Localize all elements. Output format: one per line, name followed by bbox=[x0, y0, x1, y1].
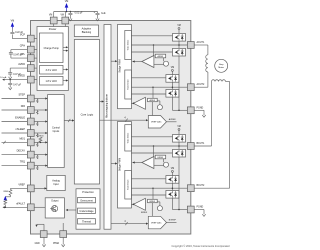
bulk capacitor at VM rail bbox=[97, 12, 99, 14]
wire winding B to BOUT2 bbox=[226, 81, 230, 83]
svg-text:Step: Step bbox=[219, 63, 224, 66]
capacitor 0.22uF on VCP bbox=[10, 32, 14, 33]
svg-text:DECAY: DECAY bbox=[17, 150, 26, 153]
wire DVDD into Power bbox=[34, 79, 37, 81]
wire 3.3-V LDO output bbox=[63, 69, 67, 71]
svg-text:AIREF: AIREF bbox=[149, 99, 156, 102]
svg-text:Bridge PWM: Bridge PWM bbox=[119, 158, 122, 171]
wire half-bridge mid node B1 bbox=[178, 142, 180, 149]
svg-text:Undervoltage: Undervoltage bbox=[79, 210, 94, 213]
wire ENABLE to Control Inputs bbox=[34, 121, 46, 123]
svg-text:PGND: PGND bbox=[197, 107, 204, 109]
comparator A1 input wires bbox=[154, 63, 164, 65]
pin M0/1 bbox=[27, 139, 34, 146]
low-side FET A1 bbox=[173, 48, 186, 56]
wire half-bridge mid node A1 bbox=[178, 41, 180, 48]
Control Inputs block bbox=[48, 95, 65, 168]
wire AIREF A2 to TRQ DAC A bbox=[151, 102, 153, 116]
current DAC BIREF B2 bbox=[148, 199, 158, 202]
wire PPAD to ground bbox=[62, 238, 64, 243]
pin DVDD bbox=[27, 76, 34, 83]
Gate Drive B2 block bbox=[125, 171, 132, 200]
pin PPAD bottom bbox=[60, 231, 67, 238]
wire AVDD to bypass cap bbox=[10, 67, 27, 69]
svg-text:BIREF: BIREF bbox=[141, 212, 148, 214]
wire STEP to Control Inputs bbox=[34, 98, 46, 100]
sense tap B2 bbox=[152, 188, 154, 199]
ground for DVDD cap bbox=[9, 84, 11, 87]
ground for 0.01uF cap bbox=[69, 16, 72, 20]
svg-text:0.47 µF: 0.47 µF bbox=[13, 85, 21, 87]
pin DIR bbox=[27, 107, 34, 114]
TRQ DAC A hexagon bbox=[148, 116, 166, 129]
wire mid node B2 to BOUT2 bbox=[131, 187, 187, 189]
wire VM pins to Power block bbox=[53, 24, 55, 27]
Adaptive Blanking block bbox=[74, 25, 98, 37]
svg-text:AIREF: AIREF bbox=[158, 55, 165, 58]
ground for bulk cap bbox=[96, 16, 99, 20]
pin DECAY bbox=[27, 151, 34, 158]
input pulldown ENABLE bbox=[37, 122, 39, 126]
Gate Drive A2 block bbox=[125, 70, 132, 99]
pin PGND B bbox=[187, 206, 194, 213]
low-side FET A2 bbox=[166, 90, 179, 98]
svg-text:Core Logic: Core Logic bbox=[81, 113, 94, 117]
svg-text:VREF DAC: VREF DAC bbox=[151, 121, 162, 124]
wire LS gate B1 bbox=[131, 152, 172, 154]
input pulldown TRQ bbox=[37, 166, 39, 170]
svg-text:Bridge PWM: Bridge PWM bbox=[119, 59, 122, 72]
svg-text:CPH: CPH bbox=[20, 45, 25, 48]
wire Protection to Output block bbox=[67, 209, 76, 211]
svg-text:RREF: RREF bbox=[3, 191, 9, 193]
svg-text:VM: VM bbox=[177, 126, 181, 128]
svg-text:0.22 µF: 0.22 µF bbox=[15, 32, 23, 34]
wire indexer to bridge A PWM bbox=[111, 60, 116, 62]
Undervoltage block bbox=[78, 208, 96, 213]
pin GND bottom bbox=[40, 231, 47, 238]
pin BOUT1 bbox=[187, 143, 194, 150]
flying capacitor 0.047uF between CPH and CPL bbox=[11, 49, 28, 51]
motor winding B inductor bbox=[212, 80, 226, 82]
IC body outline bbox=[31, 21, 191, 235]
wire Core Logic to indexer bbox=[100, 101, 104, 103]
comparator A1 bbox=[142, 56, 154, 68]
svg-text:Gate Drive: Gate Drive bbox=[126, 78, 129, 89]
Thermal block bbox=[78, 219, 96, 224]
Analog Input block bbox=[47, 175, 65, 190]
wire VCP to 0.22uF cap bbox=[12, 38, 27, 40]
comparator A2 bbox=[133, 97, 145, 109]
wire 4-bit bus to TRQ DAC A bbox=[100, 119, 148, 121]
svg-text:BOUT2: BOUT2 bbox=[197, 185, 205, 187]
high-side FET B2 bbox=[166, 176, 179, 184]
resistor RREF on VREF bbox=[9, 190, 12, 196]
high-side FET A2 bbox=[166, 75, 179, 83]
Charge Pump block bbox=[40, 33, 64, 63]
wire LS gate A2 bbox=[131, 93, 166, 95]
wire GND pin internal hook bbox=[43, 224, 45, 230]
pin VM 1 top bbox=[50, 17, 57, 24]
wire charge pump outputs bbox=[63, 46, 67, 48]
wire 4-bit bus to TRQ DAC B bbox=[111, 223, 147, 225]
current DAC AIREF A2 bbox=[148, 98, 158, 101]
svg-text:BIREF: BIREF bbox=[149, 201, 156, 203]
reference source circle B1 bbox=[164, 162, 169, 167]
pin VCP bbox=[27, 35, 34, 42]
reference source circle A1 bbox=[164, 61, 169, 66]
pin TRQ bbox=[27, 162, 34, 169]
pullup resistor to nFAULT bbox=[4, 200, 7, 205]
wire half-bridge mid node B2 bbox=[171, 183, 173, 190]
wire HS gate B1 bbox=[131, 136, 172, 138]
wire CPL into Power bbox=[34, 57, 37, 59]
wire DECAY to Control Inputs bbox=[34, 154, 46, 156]
svg-text:VM: VM bbox=[49, 15, 53, 17]
wire TRQ DAC A output AVREF bbox=[167, 121, 177, 123]
pin VREF bbox=[27, 185, 34, 192]
bridge A PWM block bbox=[118, 25, 132, 109]
low-side FET B2 bbox=[166, 191, 179, 199]
step motor circle bbox=[215, 59, 228, 72]
svg-text:VM: VM bbox=[61, 15, 65, 17]
svg-text:Gate Drive: Gate Drive bbox=[126, 179, 129, 190]
pin CPL bbox=[27, 55, 34, 62]
wire AVDD into Power bbox=[34, 67, 37, 69]
svg-text:AVDD: AVDD bbox=[18, 63, 25, 66]
Overcurrent block bbox=[78, 198, 96, 203]
svg-text:AOUT2: AOUT2 bbox=[197, 83, 205, 86]
wire comparator A1 output bbox=[132, 61, 142, 63]
svg-text:PPAD: PPAD bbox=[53, 242, 59, 245]
wire STEP external bbox=[2, 98, 28, 100]
motor winding A inductor bbox=[206, 55, 208, 72]
svg-text:3.3-V LDO: 3.3-V LDO bbox=[45, 69, 57, 72]
wire nSLEEP external bbox=[2, 132, 28, 134]
svg-text:VM: VM bbox=[171, 168, 175, 170]
ground symbol GND pin bbox=[42, 242, 45, 246]
svg-text:10 mA: 10 mA bbox=[0, 76, 7, 79]
Microstepping Indexer block bbox=[104, 25, 111, 230]
wire mid node A1 to AOUT1 bbox=[131, 44, 187, 46]
pin AOUT2 bbox=[187, 84, 194, 91]
svg-text:Microstepping Indexer: Microstepping Indexer bbox=[106, 94, 109, 118]
svg-text:VREF DAC: VREF DAC bbox=[151, 221, 162, 224]
VM supply arrow at VCP cap bbox=[11, 22, 14, 26]
pin nSLEEP bbox=[27, 130, 34, 137]
svg-text:nSLEEP: nSLEEP bbox=[16, 128, 26, 131]
pin PGND A bbox=[187, 107, 194, 114]
svg-text:Power: Power bbox=[49, 27, 57, 31]
wire PPAD internal stub bbox=[62, 223, 64, 231]
reference source circle A2 bbox=[157, 105, 162, 110]
wire mid node A2 to AOUT2 bbox=[131, 86, 187, 88]
wire TRQ DAC B output BVREF bbox=[167, 222, 177, 224]
capacitor 0.47uF on DVDD bbox=[9, 80, 11, 84]
node junction on DVDD wire bbox=[9, 79, 11, 81]
wire GND to ground bbox=[43, 238, 45, 243]
svg-text:VM: VM bbox=[177, 25, 181, 27]
Power block bbox=[37, 27, 68, 91]
wire comparator B2 output bbox=[131, 203, 133, 205]
svg-text:BOUT1: BOUT1 bbox=[197, 143, 205, 145]
pin BOUT2 bbox=[187, 185, 194, 192]
svg-text:VM: VM bbox=[11, 21, 15, 23]
wire TRQ external bbox=[2, 165, 28, 167]
wire half-bridge mid node A2 bbox=[171, 82, 173, 89]
svg-text:VREF: VREF bbox=[18, 183, 25, 186]
input pulldown M0/1 bbox=[37, 142, 39, 146]
wire M0/1 to Control Inputs bbox=[34, 141, 46, 143]
sense tap A2 bbox=[152, 87, 154, 98]
svg-text:BIREF: BIREF bbox=[158, 157, 165, 159]
1.8-V LDO block bbox=[40, 77, 64, 86]
high-side FET B1 bbox=[173, 135, 186, 143]
pin AVDD bbox=[27, 65, 34, 72]
node junction on VM rail bbox=[66, 11, 68, 13]
svg-text:AVREF: AVREF bbox=[169, 118, 177, 121]
svg-text:GND: GND bbox=[35, 243, 40, 245]
bus slash on M0/1 wire bbox=[3, 141, 5, 144]
wire HS gate A2 bbox=[131, 77, 166, 79]
svg-text:DIR: DIR bbox=[21, 105, 26, 108]
current DAC AIREF A1 bbox=[155, 54, 166, 58]
svg-text:Inputs: Inputs bbox=[53, 130, 60, 133]
wire DECAY external bbox=[2, 154, 28, 156]
comparator B1 bbox=[142, 157, 154, 169]
svg-text:Charge Pump: Charge Pump bbox=[44, 47, 60, 50]
wire LS gate A1 bbox=[131, 51, 172, 53]
svg-text:0.047 µF: 0.047 µF bbox=[13, 54, 23, 56]
wire TRQ to Control Inputs bbox=[34, 165, 46, 167]
pin ENABLE bbox=[27, 118, 34, 125]
Protection block bbox=[76, 189, 100, 229]
wire VREF to Analog Input bbox=[34, 187, 46, 189]
svg-text:Output: Output bbox=[51, 199, 59, 202]
ground symbol PPAD pin bbox=[62, 242, 65, 246]
svg-text:ENABLE: ENABLE bbox=[15, 117, 25, 120]
wire BIREF B2 to TRQ DAC B bbox=[151, 203, 153, 217]
wire B bridge low sides to PGND bbox=[178, 157, 180, 210]
wire winding A to AOUT2 bbox=[207, 72, 209, 87]
wire winding B to BOUT1 bbox=[211, 82, 213, 147]
svg-text:VM: VM bbox=[65, 0, 69, 3]
ground at PGND B bbox=[194, 209, 204, 211]
input pulldown DECAY bbox=[37, 155, 39, 159]
Gate Drive B1 block bbox=[125, 125, 132, 151]
wire CPH into Power bbox=[34, 49, 37, 51]
wire DIR external bbox=[2, 109, 28, 111]
svg-text:Gate Drive: Gate Drive bbox=[126, 39, 129, 50]
svg-text:nFAULT: nFAULT bbox=[16, 202, 25, 205]
wire nSLEEP to Control Inputs bbox=[34, 132, 46, 134]
wire HS gate A1 bbox=[131, 35, 172, 37]
wire M0/1 external bbox=[2, 141, 28, 143]
pin AOUT1 bbox=[187, 42, 194, 49]
wire DVDD with external load arrow bbox=[3, 79, 27, 81]
svg-text:Adaptive: Adaptive bbox=[82, 28, 92, 31]
svg-text:AOUT1: AOUT1 bbox=[197, 41, 205, 44]
open-drain FET inside Output block bbox=[52, 206, 58, 212]
pin nFAULT bbox=[27, 204, 34, 211]
wire VREF to reference resistor bbox=[11, 187, 28, 189]
wire DIR to Control Inputs bbox=[34, 109, 46, 111]
VM supply rail wire bbox=[54, 11, 98, 13]
low-side FET B1 bbox=[173, 149, 186, 157]
wire LS gate B2 bbox=[131, 194, 166, 196]
sense tap A1 bbox=[153, 45, 155, 56]
wire VCP into Power bbox=[34, 38, 37, 40]
wire comparator A2 output bbox=[131, 102, 133, 104]
wire mid node B1 to BOUT1 bbox=[131, 145, 187, 147]
3.3-V LDO block bbox=[40, 66, 64, 75]
reference source circle B2 bbox=[157, 206, 162, 211]
svg-text:0.01 µF: 0.01 µF bbox=[75, 12, 83, 14]
wire AOUT1 to motor winding A bbox=[194, 44, 208, 46]
svg-text:STEP: STEP bbox=[18, 94, 25, 97]
pin CPH bbox=[27, 46, 34, 53]
wire A bridge low sides to PGND bbox=[178, 56, 180, 110]
ground at PGND A bbox=[194, 109, 204, 111]
pin STEP bbox=[27, 95, 34, 102]
svg-text:PGND: PGND bbox=[197, 207, 204, 209]
current DAC BIREF B1 bbox=[155, 155, 166, 159]
Gate Drive A1 block bbox=[125, 31, 132, 60]
wire 1.8-V LDO output bbox=[63, 80, 67, 82]
wire comparator B1 output bbox=[132, 162, 142, 164]
svg-text:Gate Drive: Gate Drive bbox=[126, 132, 129, 143]
svg-text:DVDD: DVDD bbox=[18, 75, 25, 78]
svg-text:Overcurrent: Overcurrent bbox=[80, 199, 93, 202]
wire nFAULT to Output block bbox=[34, 206, 45, 208]
svg-text:bulk: bulk bbox=[101, 13, 106, 15]
VM supply arrow top bbox=[65, 3, 69, 8]
high-side FET A1 bbox=[173, 34, 186, 42]
comparator B2 bbox=[133, 198, 145, 210]
pin VM 2 top bbox=[62, 17, 69, 24]
svg-text:Motor: Motor bbox=[218, 66, 224, 69]
svg-text:Protection: Protection bbox=[82, 190, 94, 194]
capacitor 0.01uF at VM rail bbox=[69, 12, 71, 14]
wire nFAULT external with arrow bbox=[4, 206, 28, 208]
svg-text:TRQ: TRQ bbox=[20, 161, 25, 164]
svg-text:Thermal: Thermal bbox=[82, 221, 91, 224]
capacitor 0.47uF on AVDD bbox=[8, 73, 12, 74]
bridge B PWM block bbox=[118, 122, 132, 209]
input pulldown DIR bbox=[37, 110, 39, 114]
sense tap B1 bbox=[153, 146, 155, 157]
svg-text:Copyright © 2016, Texas Instru: Copyright © 2016, Texas Instruments Inco… bbox=[172, 244, 231, 248]
ground for AVDD cap bbox=[9, 73, 11, 76]
wire HS gate B2 bbox=[131, 178, 166, 180]
svg-text:Input: Input bbox=[53, 183, 59, 186]
wire Control Inputs to Core Logic bus bbox=[64, 120, 73, 122]
wire ENABLE external bbox=[2, 121, 28, 123]
svg-text:VM: VM bbox=[171, 67, 175, 69]
wire indexer to bridge B PWM bbox=[111, 163, 116, 165]
TRQ DAC B hexagon bbox=[148, 216, 166, 229]
Output block (nFAULT driver) bbox=[45, 198, 64, 218]
svg-text:Blanking: Blanking bbox=[82, 31, 92, 34]
svg-text:M0/1: M0/1 bbox=[19, 137, 25, 140]
input pulldown nSLEEP bbox=[37, 133, 39, 137]
svg-text:BVREF: BVREF bbox=[169, 220, 177, 222]
input pulldown STEP bbox=[37, 99, 39, 103]
Core Logic block bbox=[74, 40, 99, 185]
svg-text:1.8-V LDO: 1.8-V LDO bbox=[45, 80, 57, 83]
comparator B1 input wires bbox=[154, 164, 164, 166]
3.3V supply arrow at nFAULT pullup bbox=[4, 196, 7, 200]
